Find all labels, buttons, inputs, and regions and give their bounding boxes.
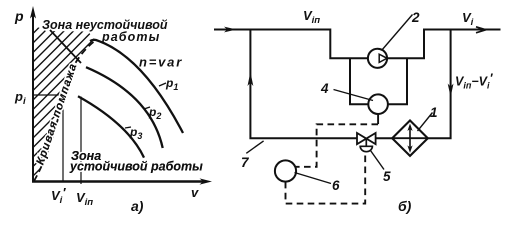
- flow sensor circle 4: [368, 94, 388, 114]
- down arrow on return line: [448, 84, 454, 98]
- dashed line controller to valve actuator: [286, 153, 366, 204]
- triangle inside compressor: [379, 54, 387, 62]
- svg-text:n=var: n=var: [139, 55, 183, 70]
- p_i horizontal line: [34, 94, 63, 96]
- main pipe top with step down through compressor: [214, 30, 501, 59]
- curve p3: [78, 96, 144, 157]
- svg-text:5: 5: [383, 169, 391, 184]
- leader 1: [418, 113, 433, 132]
- svg-text:v: v: [191, 185, 199, 200]
- V_i' vertical line: [62, 95, 64, 182]
- V_ip vertical line: [80, 97, 82, 185]
- label p1: [159, 83, 166, 86]
- svg-text:работы: работы: [101, 30, 160, 44]
- y-axis p: [32, 10, 34, 183]
- valve actuator: [360, 138, 372, 151]
- label p2: [144, 107, 150, 109]
- line through diamond: [392, 137, 428, 139]
- sensor stem: [377, 114, 379, 124]
- controller circle 6: [275, 160, 296, 181]
- x-axis v: [32, 180, 206, 182]
- svg-text:б): б): [398, 198, 412, 214]
- heat exchanger diamond 1: [392, 121, 428, 156]
- svg-text:4: 4: [320, 81, 329, 96]
- svg-text:а): а): [131, 198, 144, 214]
- leader 2: [382, 15, 413, 51]
- leader 6: [295, 173, 332, 184]
- svg-text:1: 1: [430, 105, 438, 120]
- double arrow inside diamond: [409, 127, 411, 150]
- dashed impulse line sensor to vertical: [295, 124, 378, 167]
- surge dashed curve: [34, 40, 96, 181]
- hatched unstable zone: [34, 26, 96, 181]
- compressor circle 2: [368, 49, 387, 68]
- label p3: [125, 127, 131, 128]
- svg-text:6: 6: [332, 178, 340, 193]
- right return vertical: [428, 30, 451, 139]
- valve 5 body: [357, 133, 376, 144]
- bypass branch rectangle: [350, 58, 407, 104]
- outlet arrow V_i: [476, 27, 486, 33]
- svg-text:p: p: [14, 8, 24, 24]
- inlet arrow: [224, 27, 237, 33]
- zone leader line: [50, 30, 81, 63]
- leader 4: [334, 90, 374, 101]
- pipe valve to heat exchanger: [376, 137, 393, 139]
- recycle pipe 7 left vertical: [250, 30, 357, 139]
- svg-text:2: 2: [411, 10, 420, 25]
- label 7: [246, 141, 263, 153]
- leader 5: [371, 151, 385, 170]
- up arrow on line 7: [248, 72, 254, 86]
- curve p2: [86, 67, 163, 148]
- curve p1: [90, 40, 183, 133]
- svg-text:устойчивой работы: устойчивой работы: [69, 160, 203, 174]
